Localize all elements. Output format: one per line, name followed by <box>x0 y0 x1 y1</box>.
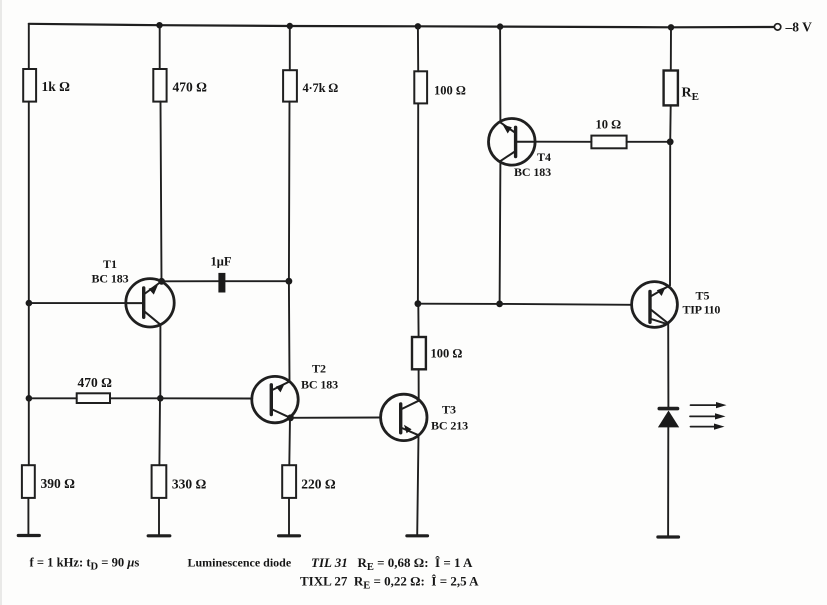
svg-text:T2: T2 <box>312 362 326 376</box>
wire down to R330 <box>158 398 161 465</box>
wire R4.7k to cap node <box>288 102 291 282</box>
wire T2 collector down to R220 <box>288 418 291 465</box>
scan edge artifact <box>0 0 2 605</box>
svg-text:BC 213: BC 213 <box>431 419 468 433</box>
svg-text:TIP 110: TIP 110 <box>683 303 721 317</box>
node: RE bottom / 10 ohm <box>667 138 674 145</box>
node: col1 470 ohm node <box>26 395 33 402</box>
resistor R2 470 <box>153 69 207 102</box>
ground col1 <box>18 534 39 537</box>
wire down to R390 <box>28 398 30 465</box>
transistor T3 BC 213 <box>381 394 469 440</box>
transistor T4 BC 183 <box>489 119 552 180</box>
wire R220 to ground <box>288 498 290 535</box>
svg-text:Luminescence diode: Luminescence diode <box>188 556 292 570</box>
node: T1 collector / 470h / 330 <box>157 395 164 402</box>
resistor R390 390 ohm <box>22 465 75 498</box>
resistor RE <box>664 71 699 106</box>
node: row / T4 collector <box>496 301 503 308</box>
node: T1 emitter / cap left <box>158 278 165 285</box>
transistor T1 BC 183 <box>92 257 175 327</box>
power rail -8 V <box>29 24 775 28</box>
capacitor C1 1uF <box>211 255 232 293</box>
wire R100b to T3 collector <box>418 369 420 400</box>
node: rail junction at T4 emitter <box>497 23 503 29</box>
svg-text:T4: T4 <box>537 150 551 164</box>
resistor R330 330 ohm <box>152 465 207 498</box>
svg-text:330 Ω: 330 Ω <box>172 477 207 492</box>
svg-text:4·7k Ω: 4·7k Ω <box>303 81 339 95</box>
wire rail to R470 top <box>159 25 161 69</box>
svg-text:TIL 31 RE = 0,68 Ω: Î = 1 A: TIL 31 RE = 0,68 Ω: Î = 1 A <box>311 555 473 573</box>
svg-text:f = 1 kHz: tD = 90 μs: f = 1 kHz: tD = 90 μs <box>30 556 140 573</box>
ground col6 <box>658 535 679 538</box>
wire T3 emitter to ground <box>417 435 418 535</box>
transistor T5 TIP 110 <box>632 282 721 328</box>
node: row / col4 <box>415 300 422 307</box>
wire 470h to T1 collector node <box>110 397 160 399</box>
svg-text:TIXL 27 RE = 0,22 Ω: Î = 2,5: TIXL 27 RE = 0,22 Ω: Î = 2,5 A <box>300 574 479 592</box>
wire col1 to 470h <box>29 397 77 399</box>
resistor R470h 470 ohm horizontal <box>77 375 112 403</box>
wire T2 collector to T3 base <box>291 417 381 419</box>
svg-text:T5: T5 <box>696 289 710 303</box>
wire row node down to R100b <box>417 304 419 337</box>
wire base node down to 470 node <box>28 303 30 398</box>
node: cap right / T2 emitter <box>286 278 293 285</box>
light arrow 1 <box>691 402 727 408</box>
resistor R1 1k <box>23 69 70 102</box>
ground col3 <box>279 534 300 537</box>
wire T1 base <box>29 302 127 304</box>
node: T1 base / divider <box>26 300 33 307</box>
svg-text:100 Ω: 100 Ω <box>434 84 466 98</box>
resistor R5 100 ohm lower <box>412 337 462 369</box>
resistor R220 220 ohm <box>282 465 336 498</box>
svg-text:T3: T3 <box>442 403 456 417</box>
wire T1 emitter node to cap <box>162 280 219 282</box>
wire R100 down to row node <box>417 103 419 303</box>
node: rail junction at 4.7k top <box>287 23 293 29</box>
wire R10 to RE node <box>627 141 671 143</box>
wire R390 to ground <box>27 498 29 535</box>
terminal -8V open circle <box>774 24 780 30</box>
node: rail junction at 100 top <box>415 23 421 29</box>
svg-text:220 Ω: 220 Ω <box>301 477 336 492</box>
node: rail junction at RE top <box>668 24 674 30</box>
wire T1 collector down <box>159 325 161 399</box>
wire rail to R100 top <box>417 26 419 71</box>
resistor R3 4.7k <box>283 70 338 101</box>
svg-text:470 Ω: 470 Ω <box>78 375 113 390</box>
wire T1c node to T2 base <box>160 397 252 399</box>
svg-text:T1: T1 <box>103 257 117 271</box>
svg-text:390 Ω: 390 Ω <box>41 476 76 491</box>
wire rail to R1 <box>28 24 30 69</box>
svg-text:BC 183: BC 183 <box>301 378 338 392</box>
transistor T2 BC 183 <box>252 362 338 423</box>
svg-text:–8 V: –8 V <box>785 20 813 35</box>
svg-text:100 Ω: 100 Ω <box>431 347 463 361</box>
wire LED to ground <box>667 427 669 536</box>
light arrow 2 <box>690 413 726 419</box>
resistor R10 10 ohm <box>591 118 626 149</box>
wire node down to T5 emitter <box>669 142 671 285</box>
wire rail to R4.7k <box>289 26 291 70</box>
wire cap to T2 emitter node <box>225 280 289 282</box>
svg-text:1μF: 1μF <box>211 255 232 269</box>
svg-text:470 Ω: 470 Ω <box>173 80 208 95</box>
wire T4 base to R10 <box>535 141 591 143</box>
wire row col4 to T5 base <box>418 304 632 305</box>
wire cap node down to T2 emitter <box>288 281 291 381</box>
wire rail to T4 emitter <box>499 27 501 123</box>
node: T2 collector <box>287 414 294 421</box>
svg-text:BC 183: BC 183 <box>514 165 551 179</box>
node: rail junction at 470 top <box>156 22 162 28</box>
svg-text:BC 183: BC 183 <box>92 272 129 286</box>
wire T4 collector down to row <box>499 161 502 304</box>
resistor R4 100 ohm upper <box>414 71 466 103</box>
ground col4 <box>407 534 428 537</box>
wire R330 to ground <box>158 498 160 535</box>
light arrow 3 <box>691 424 725 430</box>
svg-text:1k Ω: 1k Ω <box>42 79 71 94</box>
svg-text:10 Ω: 10 Ω <box>596 118 622 132</box>
svg-text:RE: RE <box>682 86 699 104</box>
wire T5 collector down to LED <box>667 323 669 409</box>
wire R470 to T1 emitter node <box>161 102 162 282</box>
wire RE to node <box>669 105 672 141</box>
LED D1 luminescence diode <box>658 409 679 428</box>
wire rail to RE <box>670 27 672 70</box>
wire R1 to base node <box>28 102 30 304</box>
ground col2 <box>148 534 170 537</box>
